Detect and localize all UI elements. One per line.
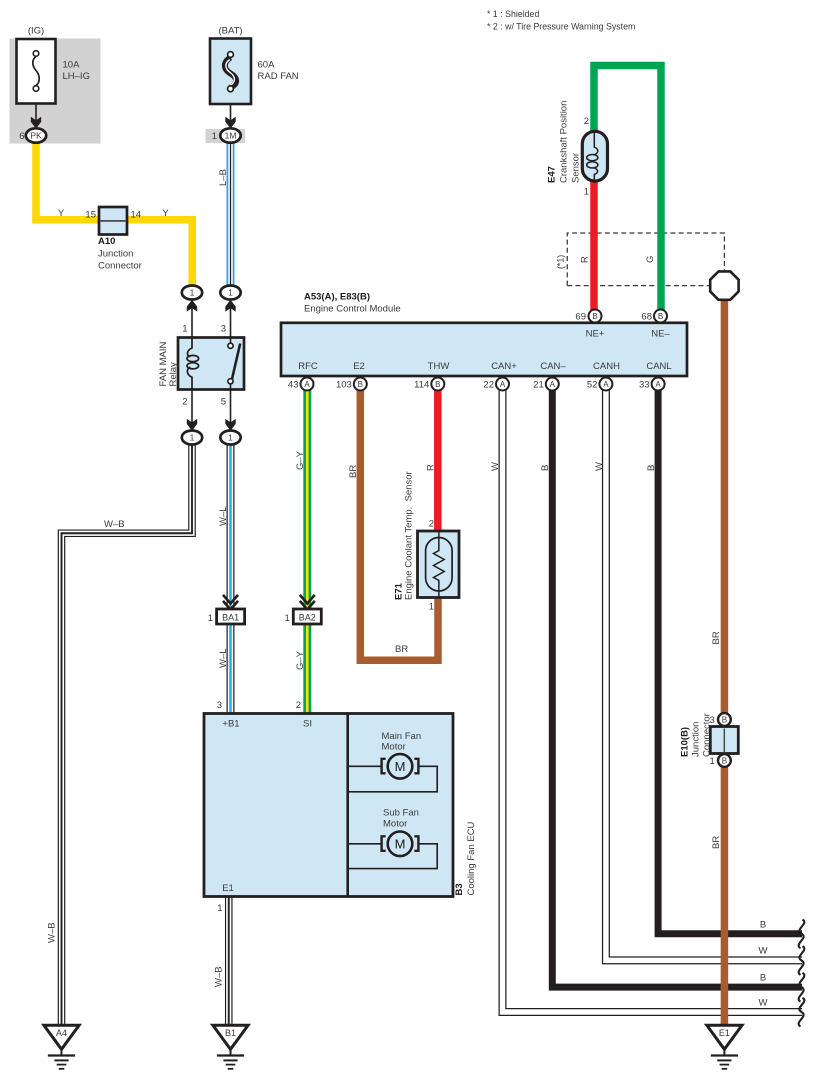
wire G-Y (RFC to BA2 to SI) — [303, 385, 311, 714]
pin 52 (A) CANH — [599, 378, 612, 391]
svg-text:CANL: CANL — [646, 361, 671, 372]
ground A4 — [44, 1025, 79, 1069]
svg-text:* 1 : Shielded: * 1 : Shielded — [487, 9, 539, 19]
E47 pickup coil — [594, 132, 598, 155]
wire (fuse lead to connector 1M) — [230, 104, 232, 128]
svg-text:L–B: L–B — [218, 169, 229, 186]
arrow down into oval (pin2) — [187, 419, 197, 431]
svg-text:Sub Fan: Sub Fan — [383, 808, 419, 819]
svg-text:21: 21 — [533, 380, 544, 391]
svg-text:G–Y: G–Y — [295, 450, 306, 470]
svg-text:W–L: W–L — [218, 648, 229, 668]
svg-text:E1: E1 — [719, 1028, 730, 1038]
wire W-B (cooling fan ECU E1 to ground B1) — [225, 896, 233, 1025]
svg-text:BR: BR — [395, 644, 408, 655]
wire Y (yellow, PK to A10 to relay pin1 connector) — [36, 140, 192, 286]
svg-text:E47: E47 — [547, 166, 558, 183]
pin 103 (B) E2 — [354, 378, 367, 391]
wire BR (shield octagon to E10(B) to ground E1) — [721, 297, 729, 1025]
svg-text:A: A — [550, 380, 556, 389]
arrow down into oval (pin5) — [225, 419, 235, 431]
svg-text:B: B — [722, 716, 727, 725]
svg-text:W–B: W–B — [104, 519, 125, 530]
svg-text:Sensor: Sensor — [571, 153, 582, 183]
pin 69 (B) NE+ — [589, 310, 602, 323]
pin 33 (A) CANL — [652, 378, 665, 391]
svg-text:A4: A4 — [56, 1028, 67, 1038]
svg-text:W–B: W–B — [47, 922, 58, 943]
wire W-B (relay pin2 connector to ground A4) — [62, 444, 193, 1026]
svg-text:W: W — [490, 462, 501, 471]
svg-text:A: A — [304, 380, 310, 389]
svg-text:1: 1 — [217, 903, 222, 914]
svg-text:2: 2 — [584, 116, 589, 127]
connector oval 1 (below relay pin5) — [220, 431, 240, 445]
svg-text:1: 1 — [228, 288, 233, 298]
main fan motor M1 — [348, 765, 382, 767]
wire G (crankshaft sensor pin2 loop to NE-) — [594, 66, 661, 311]
svg-text:Main Fan: Main Fan — [382, 731, 422, 742]
chevron arrows into BA1 — [223, 595, 238, 610]
svg-text:M: M — [395, 837, 406, 852]
svg-text:1: 1 — [208, 613, 213, 624]
svg-text:W: W — [594, 462, 605, 471]
wire R (crankshaft sensor pin1 to NE+) — [590, 181, 598, 311]
svg-text:W: W — [759, 998, 768, 1009]
wire B (CAN- to right edge) — [552, 390, 802, 987]
E71 thermistor element — [434, 531, 445, 598]
svg-text:W: W — [759, 946, 768, 957]
svg-text:A10: A10 — [98, 236, 115, 247]
wire B (CANL to right edge) — [658, 390, 802, 934]
svg-text:2: 2 — [182, 397, 187, 408]
svg-text:14: 14 — [131, 209, 142, 220]
svg-text:R: R — [425, 464, 436, 471]
junction connector BA1 — [217, 609, 245, 624]
arrow into PK — [31, 117, 41, 129]
pin 114 (B) THW — [431, 378, 444, 391]
svg-text:Engine Control Module: Engine Control Module — [304, 304, 401, 315]
svg-text:Connector: Connector — [98, 261, 142, 272]
svg-text:E1: E1 — [222, 883, 234, 894]
svg-text:B3: B3 — [454, 883, 465, 895]
svg-text:B: B — [722, 757, 727, 766]
svg-text:3: 3 — [217, 700, 222, 711]
svg-text:CAN–: CAN– — [540, 361, 566, 372]
relay FAN MAIN box — [178, 338, 244, 390]
connector 6 (PK) — [26, 128, 46, 142]
svg-text:NE+: NE+ — [586, 329, 605, 340]
relay coil — [187, 338, 192, 390]
wire break squiggle (W CANH) — [799, 946, 805, 975]
svg-text:(IG): (IG) — [28, 26, 44, 37]
wire W (CANH to right edge) — [606, 390, 802, 960]
svg-text:+B1: +B1 — [222, 719, 239, 730]
connector oval 1 (L-B, above relay pin3) — [220, 286, 240, 300]
svg-text:1: 1 — [190, 433, 195, 443]
pin 43 (A) RFC — [301, 378, 314, 391]
svg-text:A53(A), E83(B): A53(A), E83(B) — [304, 292, 370, 303]
wire break squiggle (W CAN+) — [799, 998, 805, 1027]
svg-text:BA2: BA2 — [299, 613, 316, 623]
gray strip behind 1M connector — [206, 129, 246, 143]
svg-text:BR: BR — [348, 465, 359, 478]
svg-text:R: R — [580, 256, 591, 263]
pin 1 (B) of E10 — [718, 754, 731, 767]
svg-text:BR: BR — [711, 631, 722, 644]
svg-text:Y: Y — [162, 208, 169, 219]
svg-text:Y: Y — [58, 208, 65, 219]
pin 22 (A) CAN+ — [496, 378, 509, 391]
svg-text:114: 114 — [414, 380, 429, 391]
svg-text:W–L: W–L — [218, 506, 229, 526]
svg-text:2: 2 — [296, 700, 301, 711]
wire break squiggle (B CAN-) — [799, 973, 805, 1002]
svg-text:A: A — [655, 380, 661, 389]
svg-text:BR: BR — [711, 836, 722, 849]
svg-text:W–B: W–B — [214, 966, 225, 987]
shield dashed box (*1) — [567, 233, 724, 286]
svg-text:43: 43 — [288, 380, 299, 391]
chevron arrows into BA2 — [300, 595, 315, 610]
wire (relay pin5 down to connector) — [230, 390, 232, 431]
svg-text:B: B — [760, 920, 766, 931]
svg-text:THW: THW — [428, 361, 450, 372]
svg-text:E2: E2 — [353, 361, 365, 372]
svg-text:22: 22 — [483, 380, 494, 391]
svg-text:Junction: Junction — [691, 722, 702, 757]
svg-text:PK: PK — [30, 131, 42, 141]
junction connector A10 — [99, 207, 127, 235]
pin 68 (B) NE- — [654, 310, 667, 323]
arrow up into oval (pin1) — [187, 300, 197, 312]
wire W (CAN+ to right edge) — [503, 390, 803, 1012]
junction connector E10(B) — [710, 727, 738, 754]
svg-text:Motor: Motor — [383, 818, 407, 829]
svg-text:1: 1 — [212, 131, 217, 142]
arrow up into oval (pin3) — [225, 300, 235, 312]
svg-text:RAD FAN: RAD FAN — [258, 71, 299, 82]
svg-text:B: B — [540, 465, 551, 471]
fuse 10A LH-IG box — [17, 39, 56, 104]
svg-text:69: 69 — [575, 312, 586, 323]
ground B1 — [213, 1025, 248, 1069]
svg-text:1: 1 — [190, 288, 195, 298]
fuse 60A RAD FAN box — [210, 39, 251, 105]
svg-text:CAN+: CAN+ — [491, 361, 517, 372]
svg-text:3: 3 — [221, 324, 226, 335]
wire (connector to relay pin3) — [230, 300, 232, 338]
svg-text:52: 52 — [587, 380, 598, 391]
sub fan motor M2 — [348, 843, 382, 845]
svg-text:A: A — [603, 380, 609, 389]
svg-text:B: B — [760, 973, 766, 984]
svg-text:G: G — [645, 256, 656, 263]
wire W-L (relay pin5 connector to BA1 to +B1) — [227, 444, 235, 714]
svg-text:Cooling Fan ECU: Cooling Fan ECU — [466, 821, 477, 895]
svg-text:103: 103 — [336, 380, 352, 391]
svg-text:15: 15 — [85, 209, 96, 220]
svg-text:60A: 60A — [258, 60, 276, 71]
svg-text:BA1: BA1 — [222, 613, 239, 623]
connector 1 (1M) — [220, 128, 240, 142]
cooling fan ECU B3 box — [204, 714, 453, 897]
svg-text:1: 1 — [429, 602, 434, 613]
svg-text:Connector: Connector — [701, 713, 712, 757]
svg-text:A: A — [500, 380, 506, 389]
wire BR (E2 to coolant temp sensor pin1) — [360, 385, 438, 660]
svg-text:B1: B1 — [225, 1028, 236, 1038]
svg-text:G–Y: G–Y — [295, 650, 306, 670]
wire (relay pin2 down to connector) — [191, 390, 193, 431]
octagon shield terminal — [710, 271, 738, 299]
ECM A53(A), E83(B) box — [281, 323, 687, 376]
svg-text:1: 1 — [584, 187, 589, 198]
coolant temp sensor E71 box — [418, 531, 460, 598]
svg-text:NE–: NE– — [651, 329, 670, 340]
wire R (THW to coolant temp sensor pin2) — [434, 385, 442, 533]
svg-text:B: B — [435, 380, 440, 389]
svg-text:Motor: Motor — [382, 742, 406, 753]
svg-text:(*1): (*1) — [556, 255, 566, 269]
svg-text:B: B — [658, 312, 663, 321]
svg-text:10A: 10A — [63, 60, 81, 71]
svg-text:CANH: CANH — [593, 361, 620, 372]
svg-text:B: B — [592, 312, 597, 321]
wire break squiggle (B CANL) — [799, 920, 805, 949]
wire (fuse lead to connector PK) — [35, 104, 37, 128]
svg-text:* 2 : w/ Tire Pressure Warning: * 2 : w/ Tire Pressure Warning System — [487, 22, 635, 32]
svg-text:Relay: Relay — [168, 362, 179, 387]
relay switch — [230, 338, 232, 390]
wire (connector to relay pin1) — [191, 300, 193, 338]
junction connector BA2 — [293, 609, 321, 624]
pin 21 (A) CAN- — [546, 378, 559, 391]
svg-text:1M: 1M — [225, 131, 237, 141]
connector oval 1 (below relay pin2) — [182, 431, 202, 445]
svg-text:(BAT): (BAT) — [218, 26, 242, 37]
svg-text:33: 33 — [639, 380, 650, 391]
svg-text:M: M — [395, 759, 406, 774]
svg-text:1: 1 — [285, 613, 290, 624]
wire L-B (blue/black from 1M fuse to relay pin3 connector) — [227, 143, 235, 287]
svg-text:2: 2 — [429, 519, 434, 530]
svg-text:6: 6 — [19, 131, 24, 142]
svg-text:LH–IG: LH–IG — [63, 71, 90, 82]
svg-text:B: B — [646, 465, 657, 471]
connector oval 1 (yellow, above relay pin1) — [182, 286, 202, 300]
svg-text:Crankshaft Position: Crankshaft Position — [559, 101, 570, 183]
svg-text:Junction: Junction — [98, 249, 133, 260]
crankshaft position sensor E47 body — [582, 131, 607, 181]
svg-text:B: B — [358, 380, 363, 389]
svg-text:E10(B): E10(B) — [680, 727, 691, 757]
gray background panel (IG area) — [10, 39, 101, 144]
svg-text:SI: SI — [303, 719, 312, 730]
ground E1 — [707, 1025, 742, 1069]
svg-text:1: 1 — [182, 324, 187, 335]
arrow into 1M — [225, 117, 235, 129]
svg-text:68: 68 — [641, 312, 652, 323]
pin 3 (B) of E10 — [718, 713, 731, 726]
svg-text:5: 5 — [221, 397, 226, 408]
svg-text:RFC: RFC — [298, 361, 318, 372]
svg-text:Engine Coolant Temp. Sensor: Engine Coolant Temp. Sensor — [404, 471, 415, 600]
svg-text:1: 1 — [228, 433, 233, 443]
